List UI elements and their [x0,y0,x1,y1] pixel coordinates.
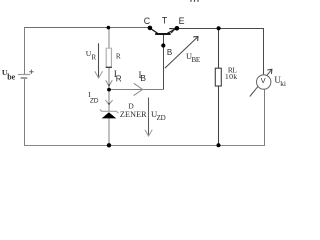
svg-text:C: C [144,16,151,26]
svg-text:ZD: ZD [90,97,99,104]
svg-text:R: R [92,53,97,61]
svg-text:be: be [7,73,15,82]
svg-text:B: B [167,48,172,57]
svg-text:R: R [116,75,122,84]
svg-text:BE: BE [191,56,200,64]
svg-text:ki: ki [280,79,286,88]
svg-text:ZD: ZD [157,114,166,122]
svg-text:R: R [116,53,121,61]
svg-text:T: T [162,16,168,26]
svg-text:V: V [261,76,266,85]
svg-text:10k: 10k [225,72,238,81]
svg-text:ZENER: ZENER [120,110,147,119]
svg-text:B: B [140,73,146,83]
svg-text:E: E [179,16,185,26]
